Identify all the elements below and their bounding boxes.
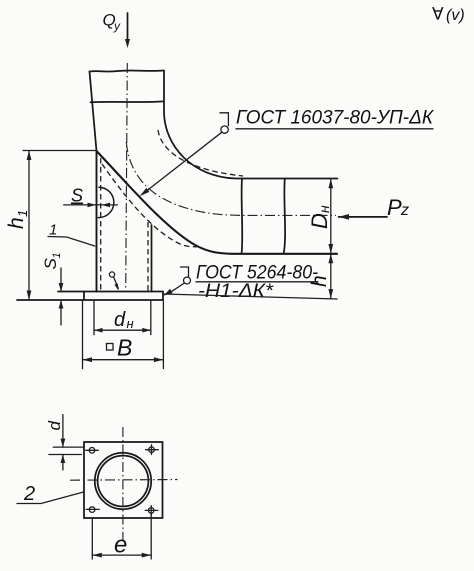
svg-text:н: н: [127, 316, 134, 331]
svg-text:(v): (v): [446, 7, 465, 24]
svg-text:B: B: [117, 335, 132, 361]
svg-text:y: y: [113, 19, 121, 33]
svg-text:h: h: [5, 217, 28, 229]
svg-text:e: e: [114, 532, 127, 559]
svg-text:1: 1: [51, 252, 63, 258]
svg-text:2: 2: [23, 483, 35, 505]
svg-text:S: S: [71, 186, 83, 206]
svg-text:D: D: [307, 213, 332, 229]
svg-text:1: 1: [15, 210, 30, 217]
svg-text:-Н1-ΔК*: -Н1-ΔК*: [198, 281, 274, 302]
svg-text:z: z: [400, 202, 409, 219]
svg-text:h: h: [308, 275, 331, 287]
svg-text:d: d: [114, 309, 126, 331]
svg-text:d: d: [45, 421, 64, 431]
svg-text:P: P: [387, 195, 402, 220]
svg-text:∀: ∀: [432, 5, 444, 24]
svg-text:н: н: [316, 205, 332, 213]
svg-text:ГОСТ 16037-80-УП-ΔК: ГОСТ 16037-80-УП-ΔК: [236, 108, 435, 129]
